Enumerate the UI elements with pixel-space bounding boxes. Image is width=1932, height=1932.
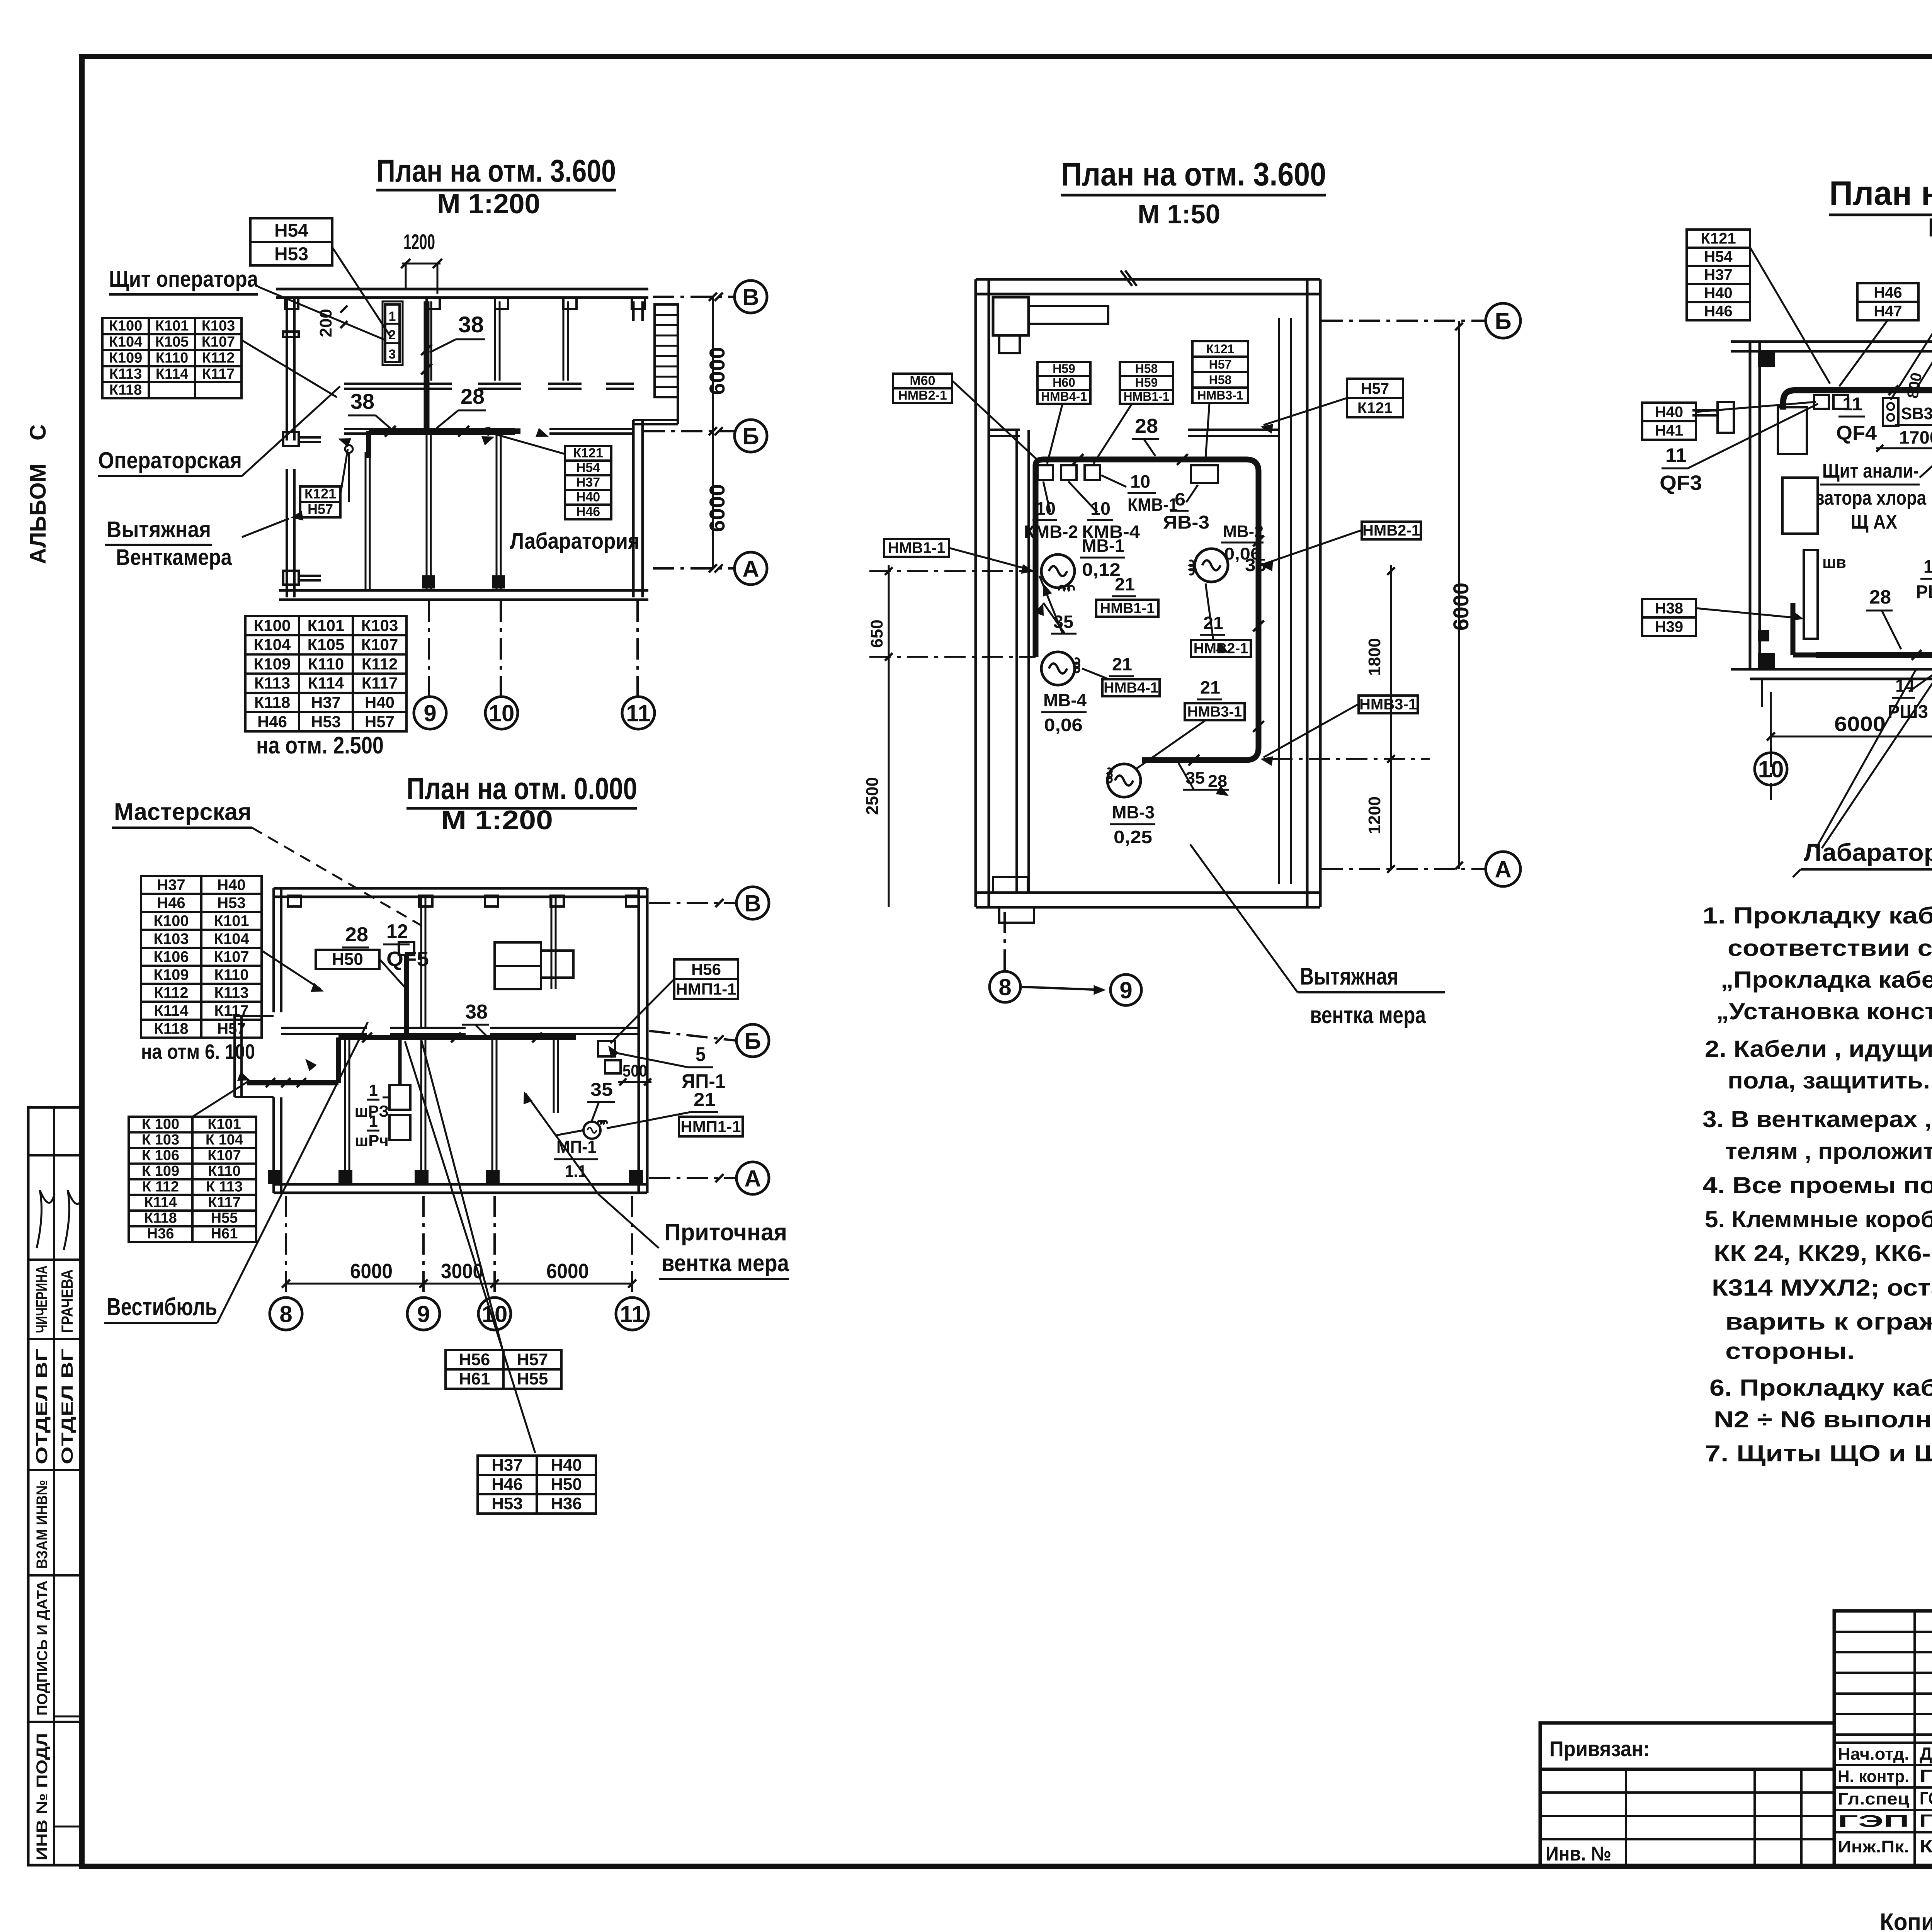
plan A mid wall upper segments	[344, 383, 452, 385]
plan B bottom wall	[976, 891, 1320, 894]
plan B label box Н59/Н60/НМВ4-1	[1037, 362, 1090, 404]
svg-text:К100: К100	[109, 318, 143, 334]
plan A grid circle А	[653, 567, 734, 570]
svg-text:QF3: QF3	[1660, 471, 1702, 495]
svg-text:варить к ограждению мостико: варить к ограждению мостиков с внешней	[1725, 1309, 1932, 1335]
svg-text:КОТОВА: КОТОВА	[1920, 1836, 1932, 1856]
plan B cable arrows	[1043, 583, 1052, 597]
plan B KMB squares	[1037, 465, 1053, 480]
svg-text:Н58: Н58	[1209, 373, 1232, 387]
svg-text:Н53: Н53	[311, 713, 341, 731]
svg-text:НМВ2-1: НМВ2-1	[1362, 522, 1420, 539]
svg-text:МВ-3: МВ-3	[1112, 802, 1155, 822]
plan B thick cable left branch	[1033, 483, 1039, 657]
svg-text:10: 10	[482, 1301, 508, 1327]
svg-text:А: А	[1495, 857, 1511, 883]
plan D building outline	[274, 887, 647, 890]
svg-text:Н60: Н60	[1053, 376, 1075, 389]
svg-text:Н58: Н58	[1135, 362, 1158, 376]
svg-text:К 106: К 106	[142, 1148, 179, 1164]
plan D diagonal leader to bottom boxes	[405, 1041, 535, 1453]
svg-text:М 1:200: М 1:200	[437, 189, 540, 219]
svg-text:К109: К109	[109, 350, 143, 366]
svg-text:С: С	[26, 424, 51, 440]
svg-text:1: 1	[369, 1112, 378, 1130]
svg-text:К112: К112	[362, 655, 398, 673]
svg-text:3. В венткамерах , кабели, ид: 3. В венткамерах , кабели, идущие к элек…	[1702, 1106, 1932, 1132]
plan C label stack К121 Н54 Н37 Н40 Н46 (top-left)	[1687, 230, 1750, 320]
svg-text:ГУСЕВА: ГУСЕВА	[1920, 1766, 1932, 1786]
svg-text:2. Кабели , идущие на высоте д: 2. Кабели , идущие на высоте до 2ˣм от у…	[1705, 1036, 1932, 1062]
plan B upper interior wall	[990, 429, 1020, 431]
svg-text:5: 5	[696, 1043, 706, 1066]
svg-text:14: 14	[1923, 556, 1932, 577]
plan A bottom band partitions	[426, 435, 428, 590]
svg-text:QF5: QF5	[386, 947, 429, 971]
left stamp column grid	[28, 1107, 82, 1865]
svg-text:МВ-1: МВ-1	[1082, 536, 1124, 556]
svg-text:К118: К118	[254, 693, 290, 711]
svg-text:ДАНИЛОВ: ДАНИЛОВ	[1920, 1743, 1932, 1764]
svg-text:38: 38	[458, 312, 484, 337]
plan A right upper wall to stairs	[677, 304, 679, 424]
svg-text:В: В	[742, 284, 759, 310]
svg-text:Н57: Н57	[1361, 380, 1389, 397]
plan A cable slashes	[421, 344, 432, 355]
svg-text:К 100: К 100	[142, 1116, 179, 1133]
svg-text:Н46: Н46	[157, 895, 185, 912]
svg-text:4. Все проемы после монтажа: 4. Все проемы после монтажа заделать.	[1702, 1172, 1932, 1198]
svg-text:21: 21	[1200, 677, 1220, 697]
svg-text:Н53: Н53	[217, 895, 245, 912]
plan D top band partitions	[420, 897, 422, 1028]
svg-text:К103: К103	[153, 930, 189, 947]
svg-text:Н36: Н36	[147, 1226, 174, 1242]
svg-text:Вытяжная: Вытяжная	[1300, 963, 1398, 990]
plan D ЯП-1 equipment	[598, 1041, 615, 1056]
plan A cable arrows	[338, 438, 351, 447]
svg-text:Н54: Н54	[1704, 248, 1733, 265]
svg-text:НМВ1-1: НМВ1-1	[888, 539, 946, 556]
svg-text:Н46: Н46	[1704, 303, 1732, 320]
svg-text:НМВ3-1: НМВ3-1	[1359, 696, 1417, 713]
plan D Н56/НМП1-1 box	[674, 959, 738, 999]
svg-text:9: 9	[423, 701, 436, 726]
svg-text:ОТДЕЛ ВГ: ОТДЕЛ ВГ	[32, 1349, 51, 1464]
plan A operator panel box	[385, 304, 400, 362]
plan D cable hatches	[266, 1078, 275, 1087]
svg-text:НМП1-1: НМП1-1	[676, 980, 736, 998]
svg-text:11: 11	[626, 701, 650, 726]
plan C outer walls	[1731, 340, 1932, 343]
plan B bottom wall pilaster	[993, 877, 1028, 893]
svg-text:НМП1-1: НМП1-1	[680, 1117, 741, 1136]
plan A left pier mid	[283, 332, 299, 337]
svg-text:Венткамера: Венткамера	[116, 545, 232, 570]
plan B ЯВ-3 box	[1191, 465, 1218, 483]
svg-text:2500: 2500	[863, 777, 882, 815]
svg-text:МВ-4: МВ-4	[1043, 690, 1087, 710]
svg-text:К104: К104	[109, 334, 143, 350]
plan B label box Н58/Н59/НМВ1-1	[1120, 362, 1173, 404]
plan A left label grid K100-K118	[102, 318, 241, 398]
svg-text:Вытяжная: Вытяжная	[107, 517, 211, 542]
plan D top pilasters	[288, 896, 301, 906]
svg-text:11: 11	[1842, 394, 1862, 415]
svg-text:8: 8	[998, 975, 1011, 1000]
plan B top wall break mark	[1121, 270, 1137, 286]
svg-text:В: В	[744, 891, 761, 917]
svg-text:вентка мера: вентка мера	[662, 1250, 789, 1277]
svg-text:Н50: Н50	[332, 950, 363, 969]
plan C SB3-1 device	[1883, 398, 1898, 426]
svg-text:АЛЬБОМ: АЛЬБОМ	[26, 464, 51, 564]
svg-text:9: 9	[1119, 978, 1132, 1003]
svg-text:6000: 6000	[350, 1260, 393, 1283]
plan A grid circle Б	[644, 430, 734, 432]
svg-text:Н59: Н59	[1135, 376, 1158, 389]
svg-text:ВЗАМ ИНВ№: ВЗАМ ИНВ№	[34, 1480, 51, 1569]
plan A top wall pilasters	[285, 298, 298, 309]
svg-text:Н46: Н46	[1874, 284, 1902, 301]
svg-text:Н40: Н40	[217, 876, 245, 893]
svg-text:35: 35	[590, 1080, 613, 1100]
plan D bottom box Н56 Н57 / Н61 Н55	[446, 1350, 561, 1389]
svg-text:1800: 1800	[1365, 638, 1384, 676]
svg-text:Н37: Н37	[157, 876, 185, 893]
svg-text:Н57: Н57	[308, 501, 333, 517]
svg-text:35: 35	[1185, 769, 1205, 787]
svg-text:ГУСЕВА: ГУСЕВА	[1920, 1811, 1932, 1831]
svg-text:К118: К118	[109, 382, 142, 398]
svg-text:500: 500	[622, 1061, 647, 1080]
svg-text:К103: К103	[361, 616, 398, 634]
svg-text:Инв. №: Инв. №	[1546, 1843, 1611, 1865]
svg-text:К121: К121	[573, 446, 603, 461]
plan C door arc bottom-left	[1761, 679, 1763, 707]
svg-text:21: 21	[694, 1090, 716, 1110]
plan D шР3 box	[389, 1085, 410, 1110]
svg-text:КМВ-2: КМВ-2	[1024, 522, 1078, 542]
svg-text:К 113: К 113	[206, 1179, 243, 1195]
svg-text:Н40: Н40	[1655, 403, 1683, 420]
plan D porch left	[233, 1016, 236, 1097]
svg-text:Копировал. Алешикова: Копировал. Алешикова	[1880, 1909, 1932, 1932]
plan B right box НМВ3-1	[1359, 696, 1418, 713]
plan A left wall	[286, 298, 288, 440]
svg-text:1.1: 1.1	[565, 1162, 587, 1181]
svg-text:1700: 1700	[1899, 427, 1932, 447]
svg-text:Н40: Н40	[551, 1456, 582, 1475]
plan D bottom band partitions	[344, 1034, 346, 1184]
svg-text:РШ6: РШ6	[1916, 582, 1932, 602]
svg-text:Н57: Н57	[517, 1350, 548, 1369]
svg-text:SB3-1: SB3-1	[1901, 404, 1932, 423]
title block small table	[1834, 1611, 1932, 1866]
plan B outer left wall	[975, 279, 977, 907]
plan B bottom circles 8 9 with arrow	[1003, 912, 1006, 970]
plan A building top wall	[276, 288, 648, 291]
plan A box K121/H57	[300, 486, 340, 517]
svg-text:7. Щиты ЩО и Щ АХ заказа: 7. Щиты ЩО и Щ АХ заказаны в части АТХ.	[1705, 1440, 1932, 1466]
svg-text:М 1:50: М 1:50	[1138, 199, 1220, 229]
svg-text:К113: К113	[109, 366, 142, 382]
plan A vent room wall	[365, 452, 367, 590]
svg-text:Н. контр.: Н. контр.	[1838, 1767, 1909, 1786]
svg-text:Н47: Н47	[1874, 303, 1902, 320]
svg-text:НМВ2-1: НМВ2-1	[898, 388, 947, 403]
svg-text:Н46: Н46	[492, 1475, 523, 1494]
svg-text:К 103: К 103	[142, 1132, 179, 1148]
svg-text:1: 1	[369, 1081, 378, 1099]
plan A bottom grid circles 9 10 11	[428, 601, 430, 696]
plan C bottom circles 10 11	[1770, 746, 1772, 800]
plan C thick cable	[1783, 390, 1932, 655]
svg-text:затора хлора: затора хлора	[1816, 487, 1927, 509]
svg-text:2: 2	[389, 328, 396, 342]
svg-text:6000: 6000	[1834, 713, 1886, 736]
svg-text:К100: К100	[254, 616, 291, 634]
svg-text:К121: К121	[1206, 342, 1235, 356]
svg-text:К110: К110	[214, 966, 249, 983]
svg-text:телям , проложить в штрабе: телям , проложить в штрабе.	[1725, 1138, 1932, 1164]
plan B left outside box НМВ1-1	[884, 539, 949, 557]
svg-text:3000: 3000	[441, 1260, 483, 1283]
svg-text:1200: 1200	[1365, 796, 1384, 834]
svg-text:Щит анали-: Щит анали-	[1822, 460, 1919, 482]
plan B room left inner wall	[1015, 430, 1018, 893]
svg-text:К117: К117	[208, 1194, 241, 1211]
signature squiggle 1	[37, 1190, 54, 1248]
svg-text:1. Прокладку кабелей и проводо: 1. Прокладку кабелей и проводов выполнит…	[1702, 903, 1932, 929]
svg-text:Н36: Н36	[551, 1494, 582, 1513]
svg-text:Н46: Н46	[257, 713, 287, 731]
plan A left wall pilasters	[283, 432, 299, 446]
svg-text:К114: К114	[154, 1002, 189, 1019]
svg-text:6. Прокладку кабелей к задви: 6. Прокладку кабелей к задвижкам фильтро…	[1709, 1375, 1932, 1401]
plan A stairs block	[655, 304, 678, 397]
plan B right inner wall	[1278, 318, 1280, 884]
svg-text:НМВ4-1: НМВ4-1	[1041, 389, 1087, 403]
svg-text:10: 10	[1036, 498, 1056, 519]
svg-text:М 1:200: М 1:200	[441, 805, 553, 835]
svg-text:К113: К113	[254, 674, 290, 692]
plan B motor МВ-4	[1041, 652, 1075, 685]
svg-text:К107: К107	[202, 334, 235, 350]
plan B grid circle Б	[1321, 320, 1486, 322]
svg-text:0,25: 0,25	[1114, 827, 1152, 847]
svg-text:Операторская: Операторская	[98, 447, 242, 473]
svg-text:5. Клеммные коробки : КК2,: 5. Клеммные коробки : КК2, КК6, КК10, КК…	[1705, 1206, 1932, 1232]
svg-text:3: 3	[389, 347, 396, 362]
svg-text:шРч: шРч	[355, 1131, 388, 1150]
svg-text:К314 МУХЛ2; остальные клеммн: К314 МУХЛ2; остальные клеммные коробки п…	[1712, 1275, 1932, 1301]
svg-text:Н53: Н53	[274, 244, 308, 265]
svg-text:ОТДЕЛ ВГ: ОТДЕЛ ВГ	[58, 1349, 76, 1464]
svg-text:К110: К110	[208, 1163, 241, 1179]
plan A top band partitions	[426, 301, 428, 381]
svg-text:НМВ4-1: НМВ4-1	[1104, 680, 1158, 696]
svg-text:6000: 6000	[705, 484, 729, 532]
svg-text:ИНВ № ПОДЛ: ИНВ № ПОДЛ	[34, 1733, 51, 1861]
plan B motor МВ-2	[1195, 549, 1228, 582]
svg-text:К117: К117	[362, 674, 398, 692]
leader from H54 box to operator panel	[332, 247, 390, 336]
svg-text:шв: шв	[1822, 553, 1846, 572]
plan D left grid 2	[129, 1117, 256, 1242]
svg-text:пола, защитить.: пола, защитить.	[1728, 1068, 1930, 1094]
svg-text:План на отм. 3.600: План на отм. 3.600	[376, 153, 616, 189]
svg-text:на отм. 2.500: на отм. 2.500	[256, 732, 384, 759]
plan A junction node	[345, 445, 353, 453]
svg-text:„Установка конструкций для про: „Установка конструкций для прокладки каб…	[1716, 998, 1932, 1024]
svg-text:ЯВ-3: ЯВ-3	[1163, 512, 1209, 533]
svg-text:ГОЛЬЦМАН: ГОЛЬЦМАН	[1920, 1788, 1932, 1808]
svg-text:1: 1	[389, 309, 396, 324]
title block revision table	[1540, 1769, 1834, 1866]
plan C left outer pier	[1718, 402, 1734, 433]
svg-text:А: А	[742, 556, 759, 582]
svg-text:К121: К121	[1701, 230, 1736, 247]
plan B motor МВ-3	[1107, 764, 1141, 797]
plan C left box Н38/Н39	[1642, 599, 1696, 636]
svg-text:21: 21	[1115, 574, 1135, 594]
svg-text:0,06: 0,06	[1044, 715, 1083, 735]
svg-text:К104: К104	[254, 636, 291, 654]
svg-text:К118: К118	[144, 1210, 177, 1226]
plan B far right dim 6000	[1458, 321, 1460, 869]
svg-text:21: 21	[1112, 654, 1132, 674]
svg-text:„Прокладка кабелей на конструк: „Прокладка кабелей на конструкциях и 4.4…	[1721, 967, 1932, 993]
plan D Н50 box	[316, 950, 379, 969]
svg-text:План на отм. 3.600: План на отм. 3.600	[1829, 174, 1932, 212]
svg-text:Н55: Н55	[517, 1369, 548, 1388]
plan B top wall	[976, 278, 1320, 281]
svg-text:К105: К105	[308, 636, 345, 654]
svg-text:Н40: Н40	[365, 693, 395, 711]
plan D bottom box Н37 Н40 / Н46 Н50 / Н53 Н36	[478, 1456, 596, 1514]
plan B label box М60/НМВ2-1	[893, 374, 952, 403]
svg-text:200: 200	[316, 309, 335, 337]
svg-text:К101: К101	[308, 616, 345, 634]
svg-text:Н41: Н41	[1655, 422, 1683, 439]
title block: привязан box	[1540, 1723, 1834, 1769]
plan C cable slashes	[1888, 385, 1898, 395]
plan A bottom wall	[279, 589, 648, 592]
svg-text:Н54: Н54	[576, 461, 600, 475]
svg-text:К113: К113	[214, 984, 249, 1001]
plan D bottom circles 8 9 10 11	[285, 1196, 287, 1295]
svg-text:Н55: Н55	[211, 1210, 238, 1226]
plan A bottom label grid	[245, 616, 406, 731]
svg-text:К121: К121	[1357, 400, 1393, 417]
svg-text:28: 28	[1869, 586, 1891, 608]
plan A label box H54/H53	[250, 218, 332, 265]
svg-text:К103: К103	[202, 318, 235, 334]
svg-text:К 112: К 112	[142, 1179, 179, 1195]
plan D mid wall	[281, 1027, 367, 1029]
svg-text:К104: К104	[214, 930, 249, 947]
svg-text:Н57: Н57	[1209, 357, 1232, 371]
plan C left box Н40/Н41	[1642, 403, 1696, 440]
svg-text:Н39: Н39	[1655, 618, 1683, 635]
svg-text:МП-1: МП-1	[556, 1137, 597, 1157]
svg-text:вентка мера: вентка мера	[1310, 1002, 1426, 1029]
plan D QF5 square	[399, 942, 414, 955]
plan C Н46/Н47 box	[1857, 283, 1918, 320]
plan A right dim line 6000/6000	[712, 297, 714, 568]
plan B thick cable loop	[1036, 459, 1259, 760]
svg-text:Н38: Н38	[1655, 600, 1683, 617]
svg-text:Мастерская: Мастерская	[114, 799, 252, 825]
plan C bottom dim 6000	[1771, 736, 1932, 738]
svg-text:Привязан:: Привязан:	[1549, 1736, 1650, 1761]
svg-text:МВ-2: МВ-2	[1223, 522, 1264, 541]
svg-text:Гл.спец: Гл.спец	[1838, 1789, 1909, 1808]
svg-text:Н61: Н61	[459, 1369, 490, 1388]
svg-text:Щит оператора: Щит оператора	[109, 267, 259, 292]
plan D МП-1 motor	[583, 1122, 600, 1139]
svg-text:ГРАЧЕВА: ГРАЧЕВА	[58, 1269, 76, 1333]
plan B cable slashes	[1073, 454, 1083, 465]
svg-text:на отм 6. 100: на отм 6. 100	[141, 1040, 255, 1063]
svg-text:План на отм. 0.000: План на отм. 0.000	[406, 771, 637, 806]
plan B grid circle А	[1321, 868, 1486, 870]
svg-text:Инж.Пк.: Инж.Пк.	[1838, 1837, 1909, 1856]
svg-text:Н37: Н37	[1704, 267, 1732, 284]
plan B label box Н57/К121 right	[1347, 379, 1403, 417]
svg-text:38: 38	[465, 1001, 488, 1023]
svg-text:К118: К118	[154, 1020, 189, 1037]
svg-text:НМВ3-1: НМВ3-1	[1197, 388, 1243, 402]
svg-text:К107: К107	[361, 636, 398, 654]
svg-text:К100: К100	[153, 912, 189, 929]
svg-text:Б: Б	[742, 423, 759, 449]
svg-text:N2 ÷ N6 выполнить аналогичн: N2 ÷ N6 выполнить аналогично фильтру №1	[1714, 1406, 1932, 1432]
plan A thick cable horizontal	[369, 429, 520, 434]
svg-text:К117: К117	[202, 366, 235, 382]
svg-text:Н57: Н57	[217, 1020, 245, 1037]
svg-text:К114: К114	[144, 1194, 177, 1211]
svg-text:К106: К106	[153, 948, 189, 965]
svg-text:План на отм. 3.600: План на отм. 3.600	[1061, 156, 1326, 193]
plan A lab label stack K121 H54 H37 H40 H46	[565, 446, 611, 519]
svg-text:К 109: К 109	[142, 1163, 179, 1179]
svg-text:К110: К110	[156, 350, 189, 366]
plan D cable to шР boxes	[398, 1037, 402, 1085]
svg-text:6000: 6000	[546, 1260, 589, 1283]
svg-text:К114: К114	[156, 366, 189, 382]
svg-text:Б: Б	[1495, 308, 1511, 334]
plan D thick cable main	[338, 1035, 576, 1040]
svg-text:21: 21	[1203, 613, 1223, 633]
svg-text:Н37: Н37	[576, 475, 600, 490]
svg-text:10: 10	[489, 701, 515, 726]
svg-text:6000: 6000	[1449, 583, 1473, 631]
leader from K grid to plan	[241, 340, 337, 397]
svg-text:6: 6	[1175, 489, 1185, 509]
svg-text:28: 28	[1208, 772, 1227, 791]
svg-text:ПОДПИСЬ И ДАТА: ПОДПИСЬ И ДАТА	[34, 1580, 51, 1716]
svg-text:Н37: Н37	[311, 693, 341, 711]
svg-text:Н40: Н40	[1704, 285, 1732, 302]
svg-text:стороны.: стороны.	[1725, 1338, 1855, 1364]
svg-text:Щ АХ: Щ АХ	[1851, 511, 1897, 533]
svg-text:Н59: Н59	[1053, 362, 1075, 376]
svg-text:Вестибюль: Вестибюль	[107, 1293, 217, 1321]
svg-text:8: 8	[279, 1301, 292, 1327]
svg-text:М60: М60	[910, 374, 935, 388]
